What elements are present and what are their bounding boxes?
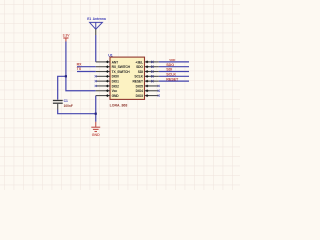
wire GND pin down to ground bbox=[95, 96, 97, 122]
pin RESET (right row 5) bbox=[132, 79, 158, 83]
pin DIO4 (right row 7) bbox=[136, 89, 159, 93]
svg-text:VDD: VDD bbox=[169, 58, 175, 62]
svg-text:DIO5: DIO5 bbox=[136, 84, 144, 88]
capacitor C1 bbox=[53, 101, 63, 110]
wire SCLK net bbox=[159, 75, 189, 77]
junction ground tee bbox=[95, 113, 97, 115]
svg-text:TX_SWITCH: TX_SWITCH bbox=[112, 70, 131, 74]
svg-text:GND: GND bbox=[92, 133, 100, 137]
svg-text:DIO3: DIO3 bbox=[136, 94, 144, 98]
no-connect X on DIO2 bbox=[95, 85, 97, 87]
pin DIO5 (right row 6) bbox=[136, 84, 159, 88]
pin SDO (right row 2) bbox=[136, 65, 159, 69]
svg-text:Vcc: Vcc bbox=[112, 89, 118, 93]
svg-text:RX: RX bbox=[77, 62, 83, 66]
svg-text:ANT: ANT bbox=[112, 60, 119, 64]
svg-text:TX: TX bbox=[77, 67, 82, 71]
svg-text:SCLK: SCLK bbox=[134, 75, 143, 79]
no-ERC mark on +3EL pin bbox=[151, 61, 153, 63]
junction tee on rail bbox=[65, 75, 67, 77]
no-connect X on DIO0 bbox=[95, 75, 97, 77]
no-connect X on DIO4 bbox=[158, 90, 160, 92]
pin TX_SWITCH (left row 3) bbox=[96, 70, 131, 74]
no-connect X on DIO3 bbox=[158, 94, 160, 96]
pin DIO0 (left row 4) bbox=[96, 75, 119, 79]
svg-text:SDO: SDO bbox=[166, 63, 174, 67]
wire RESET net bbox=[159, 80, 189, 82]
svg-text:RESET: RESET bbox=[166, 77, 179, 81]
svg-text:SDI: SDI bbox=[138, 70, 143, 74]
svg-text:+3EL: +3EL bbox=[135, 60, 143, 64]
svg-text:SCLK: SCLK bbox=[166, 73, 176, 77]
pin Vcc (left row 7) bbox=[96, 89, 118, 93]
no-ERC mark on SDI pin bbox=[151, 70, 153, 72]
antenna E1 bbox=[87, 17, 106, 35]
svg-text:DIO2: DIO2 bbox=[112, 84, 120, 88]
pin DIO3 (right row 8) bbox=[136, 94, 159, 98]
wire tee to Vcc pin bbox=[66, 76, 96, 90]
wire tee left to capacitor bbox=[58, 76, 66, 100]
pin RX_SWITCH (left row 2) bbox=[96, 65, 131, 69]
ground GND power symbol bbox=[91, 122, 100, 137]
power port 3.3V bbox=[63, 34, 71, 42]
pin DIO2 (left row 6) bbox=[96, 84, 119, 88]
svg-text:DIO4: DIO4 bbox=[136, 89, 144, 93]
op-amp U1 LORA_868 module body bbox=[110, 57, 145, 99]
no-ERC mark on SDO pin bbox=[151, 66, 153, 68]
wire RX net bbox=[77, 66, 96, 68]
no-connect X on DIO1 bbox=[95, 80, 97, 82]
pin GND (left row 8) bbox=[96, 94, 120, 98]
svg-text:U1: U1 bbox=[108, 54, 113, 58]
svg-text:Antenna: Antenna bbox=[93, 17, 106, 21]
wire 3.3V rail down to tee bbox=[65, 42, 67, 77]
pin DIO1 (left row 5) bbox=[96, 79, 119, 83]
no-ERC mark on SCLK pin bbox=[151, 75, 153, 77]
svg-text:3.3V: 3.3V bbox=[63, 34, 71, 38]
svg-text:C1: C1 bbox=[64, 99, 68, 103]
svg-text:SDO: SDO bbox=[136, 65, 143, 69]
wire VDD net bbox=[159, 61, 189, 63]
pin ANT (left row 1) bbox=[96, 60, 118, 64]
svg-text:RX_SWITCH: RX_SWITCH bbox=[112, 65, 131, 69]
svg-text:DIO1: DIO1 bbox=[112, 79, 120, 83]
svg-text:DIO0: DIO0 bbox=[112, 75, 120, 79]
svg-text:GND: GND bbox=[112, 94, 120, 98]
pin SDI (right row 3) bbox=[138, 70, 159, 74]
no-connect X on DIO5 bbox=[158, 85, 160, 87]
wire SDI net bbox=[159, 71, 189, 73]
svg-text:LORA_868: LORA_868 bbox=[110, 103, 128, 107]
svg-text:E1: E1 bbox=[87, 17, 91, 21]
svg-text:SDI: SDI bbox=[166, 68, 172, 72]
svg-text:RESET: RESET bbox=[132, 79, 142, 83]
wire capacitor bottom to ground junction bbox=[58, 110, 96, 114]
wire TX net bbox=[77, 71, 96, 73]
svg-text:100nF: 100nF bbox=[64, 104, 73, 108]
pin +3EL (right row 1) bbox=[135, 60, 158, 64]
no-ERC mark on RESET pin bbox=[151, 80, 153, 82]
wire antenna to ANT pin bbox=[95, 35, 97, 62]
pin SCLK (right row 4) bbox=[134, 75, 158, 79]
wire SDO net bbox=[159, 66, 189, 68]
